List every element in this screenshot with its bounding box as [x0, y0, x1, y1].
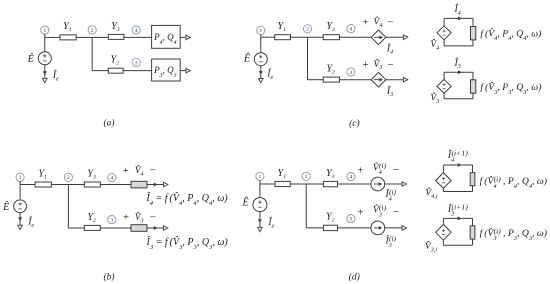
wire: [147, 184, 164, 186]
wire: [472, 93, 474, 99]
element V3: [131, 225, 147, 232]
wire: [444, 71, 473, 73]
label I4 (i): [385, 187, 397, 202]
wire: [472, 165, 474, 173]
label I3 (i+1): [447, 202, 468, 217]
wire: [472, 239, 474, 245]
svg-text:−: −: [387, 59, 393, 71]
wire: [180, 70, 186, 72]
equation f V3: [480, 80, 541, 95]
svg-text:2: 2: [91, 28, 94, 34]
node 1: [41, 26, 49, 34]
label E: [243, 52, 250, 64]
label Y1: [63, 21, 72, 33]
dependent source V3i: [436, 224, 451, 240]
label plus: [357, 207, 363, 219]
wire: [259, 180, 261, 197]
wire: [307, 37, 309, 79]
svg-text:+: +: [362, 59, 368, 71]
node 1: [16, 173, 24, 181]
resistor load: [470, 173, 475, 186]
svg-text:1: 1: [259, 28, 262, 34]
wire: [443, 217, 472, 219]
label Y1: [278, 21, 287, 33]
arrow to reference: [18, 225, 23, 229]
label Y2: [326, 64, 335, 76]
node 2: [302, 172, 310, 180]
svg-text:4: 4: [110, 175, 113, 181]
resistor Y1: [35, 182, 51, 187]
svg-text:(a): (a): [103, 118, 114, 129]
label plus: [362, 17, 368, 29]
wire: [442, 218, 444, 224]
wire: [92, 70, 108, 72]
wire: [472, 40, 474, 46]
label plus: [362, 59, 368, 71]
output arrow: [164, 182, 168, 187]
label minus: [393, 206, 399, 218]
current arrow: [458, 163, 462, 167]
caption (b): [103, 272, 114, 283]
svg-text:1: 1: [43, 28, 46, 34]
dependent source V4i: [436, 173, 451, 189]
label I3: [453, 57, 460, 70]
voltage source E: [253, 198, 267, 212]
label Y2: [326, 212, 335, 224]
svg-text:(b): (b): [103, 272, 114, 283]
wire: [123, 70, 152, 72]
svg-text:+: +: [357, 207, 363, 219]
wire: [443, 244, 472, 246]
svg-text:Ê: Ê: [2, 201, 9, 213]
dependent source V4: [371, 30, 386, 45]
label Y1: [278, 168, 287, 180]
wire: [386, 79, 404, 81]
label minus: [150, 211, 156, 223]
wire: [260, 66, 262, 79]
label minus: [387, 59, 393, 71]
wire: [444, 98, 473, 100]
svg-text:−: −: [393, 206, 399, 218]
resistor Y2: [108, 68, 123, 73]
label minus: [393, 164, 399, 176]
label Y3: [326, 21, 335, 33]
svg-text:3: 3: [135, 60, 138, 66]
label V4,i: [425, 186, 438, 200]
equation f V4: [480, 27, 541, 42]
wire: [442, 165, 444, 173]
wire: [338, 183, 371, 185]
label V3: [135, 210, 144, 224]
wire: [385, 183, 403, 185]
node 3: [347, 68, 355, 76]
label plus: [123, 165, 129, 177]
svg-text:+: +: [123, 212, 129, 224]
arrow to reference: [43, 78, 48, 82]
wire: [443, 191, 472, 193]
wire: [100, 227, 131, 229]
node 3: [108, 216, 116, 224]
wire: [442, 240, 444, 245]
current source I4: [371, 177, 385, 191]
wire: [147, 227, 164, 229]
node 4: [347, 25, 355, 33]
label I3 (i): [385, 234, 397, 249]
wire: [19, 181, 21, 198]
wire: [444, 45, 473, 47]
wire: [68, 227, 84, 229]
label minus: [387, 16, 393, 28]
node 3: [132, 58, 140, 66]
dependent source V4: [437, 26, 451, 40]
wire: [124, 36, 152, 38]
svg-text:1: 1: [19, 175, 22, 181]
svg-text:4: 4: [350, 27, 353, 33]
label I4 (i+1): [447, 148, 468, 163]
svg-text:3: 3: [110, 218, 113, 224]
label I4: [386, 42, 393, 55]
label Y3: [326, 168, 335, 180]
label V3: [430, 91, 439, 105]
wire: [291, 36, 324, 38]
node 2: [64, 173, 72, 181]
label minus: [150, 165, 156, 177]
label E: [242, 197, 249, 209]
wire: [472, 186, 474, 192]
svg-text:3: 3: [350, 70, 353, 76]
dependent source V3: [437, 79, 451, 93]
svg-text:1: 1: [259, 174, 262, 180]
output arrow: [164, 226, 168, 231]
label I3: [386, 85, 393, 98]
wire: [338, 227, 371, 229]
svg-text:−: −: [150, 211, 156, 223]
wire: [67, 185, 69, 229]
equation I4: [145, 191, 228, 206]
wire: [20, 184, 35, 186]
resistor load: [470, 226, 475, 239]
svg-text:2: 2: [67, 175, 70, 181]
resistor Y2: [323, 77, 339, 82]
svg-text:Ê: Ê: [27, 53, 34, 65]
load block P3 Q3: [152, 59, 181, 81]
wire: [259, 212, 261, 228]
svg-text:2: 2: [305, 174, 308, 180]
svg-text:3: 3: [350, 217, 353, 223]
current arrow Ie: [258, 219, 262, 223]
wire: [386, 36, 404, 38]
label Ie: [52, 69, 59, 82]
load block P4 Q4: [152, 25, 181, 48]
resistor load: [471, 80, 476, 93]
wire: [340, 36, 372, 38]
wire: [443, 72, 445, 79]
label Ie: [27, 215, 34, 228]
equation I3: [146, 235, 229, 250]
voltage source E: [14, 200, 27, 213]
svg-text:2: 2: [306, 27, 309, 33]
current arrow Ie: [18, 217, 22, 221]
dependent source V3: [371, 72, 386, 87]
wire: [472, 218, 474, 225]
wire: [305, 184, 307, 228]
wire: [76, 36, 108, 38]
wire: [443, 93, 445, 98]
wire: [443, 40, 445, 46]
wire: [100, 184, 131, 186]
wire: [443, 164, 472, 166]
output arrow: [186, 68, 190, 73]
output arrow: [403, 77, 407, 82]
svg-text:−: −: [387, 16, 393, 28]
label Y2: [111, 54, 120, 66]
arrow to reference: [258, 227, 263, 231]
current arrow I3: [458, 70, 462, 74]
caption (c): [349, 118, 360, 129]
wire: [45, 36, 60, 38]
svg-text:Ê: Ê: [242, 197, 249, 209]
wire: [91, 37, 93, 70]
node 4: [132, 26, 140, 34]
output arrow: [402, 226, 406, 231]
wire: [290, 183, 323, 185]
svg-text:Ê: Ê: [243, 52, 250, 64]
wire: [44, 34, 46, 52]
node 4: [347, 173, 355, 181]
svg-text:(c): (c): [349, 118, 360, 129]
resistor Y3: [108, 34, 124, 39]
label V4: [135, 164, 144, 178]
current arrow Ie: [43, 71, 47, 75]
node 3: [347, 215, 355, 223]
wire: [180, 36, 186, 38]
current arrow I4: [458, 16, 462, 20]
arrow to reference: [259, 78, 264, 82]
resistor Y3: [84, 182, 100, 187]
label Y2: [87, 212, 96, 224]
svg-text:−: −: [150, 165, 156, 177]
resistor load: [471, 27, 476, 40]
svg-text:−: −: [393, 164, 399, 176]
wire: [472, 18, 474, 26]
label V3,i: [425, 239, 438, 253]
resistor Y1: [275, 35, 291, 40]
node 4: [108, 173, 116, 181]
svg-text:4: 4: [350, 175, 353, 181]
node 2: [303, 25, 311, 33]
label plus: [357, 164, 363, 176]
label V4 (i): [373, 161, 387, 176]
svg-text:+: +: [123, 165, 129, 177]
current arrow I4: [154, 183, 158, 187]
resistor Y2: [324, 225, 338, 230]
wire: [442, 188, 444, 191]
label V3: [374, 57, 383, 71]
wire: [260, 34, 262, 52]
wire: [472, 72, 474, 80]
label V4: [430, 37, 439, 51]
element V4: [131, 181, 147, 188]
output arrow: [403, 35, 407, 40]
resistor Y1: [275, 181, 290, 186]
output arrow: [402, 182, 406, 187]
label I4: [453, 3, 460, 16]
resistor Y1: [60, 35, 76, 40]
caption (d): [349, 272, 360, 283]
svg-text:+: +: [357, 164, 363, 176]
equation f V3 (i): [480, 227, 547, 242]
wire: [306, 227, 323, 229]
label plus: [123, 212, 129, 224]
label V4: [374, 15, 383, 29]
node 1: [256, 172, 264, 180]
wire: [308, 79, 324, 81]
current arrow: [458, 216, 462, 220]
label E: [2, 201, 9, 213]
current arrow I3: [154, 226, 158, 230]
wire: [44, 65, 46, 78]
wire: [19, 213, 21, 226]
label Ie: [267, 216, 274, 229]
wire: [340, 79, 372, 81]
label Y1: [38, 168, 47, 180]
resistor Y3: [324, 181, 338, 186]
equation f V4 (i): [480, 175, 547, 190]
wire: [385, 227, 403, 229]
svg-text:+: +: [362, 17, 368, 29]
caption (a): [103, 118, 114, 129]
voltage source E: [38, 52, 51, 65]
label E: [27, 53, 34, 65]
wire: [444, 17, 473, 19]
wire: [443, 18, 445, 26]
current source I3: [371, 221, 385, 235]
label V3 (i): [373, 203, 387, 218]
output arrow: [186, 35, 190, 40]
resistor Y3: [323, 35, 339, 40]
voltage source E: [254, 53, 267, 66]
label Y3: [111, 21, 120, 33]
current arrow Ie: [259, 71, 263, 75]
wire: [51, 184, 84, 186]
wire: [261, 36, 275, 38]
label Y3: [87, 168, 96, 180]
node 2: [88, 26, 96, 34]
svg-text:4: 4: [135, 28, 138, 34]
svg-text:(d): (d): [349, 272, 360, 283]
node 1: [257, 26, 265, 34]
wire: [260, 183, 275, 185]
resistor Y2: [84, 225, 100, 230]
label Ie: [266, 68, 273, 81]
